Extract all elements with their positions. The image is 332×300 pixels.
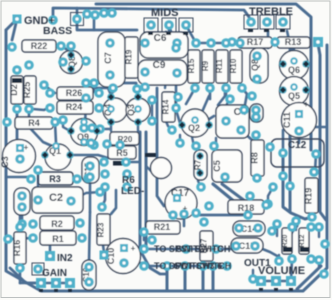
capacitor C16	[82, 260, 96, 290]
wire horizontal y215	[196, 214, 248, 217]
pads right of Q3	[147, 95, 157, 105]
pads R26 R24 right	[94, 88, 104, 98]
pad under R18	[243, 210, 253, 220]
capacitor pill left of C2	[14, 188, 30, 215]
capacitor C2	[32, 187, 83, 213]
wire GND pad to left border	[6, 19, 17, 30]
resistor R19 left	[125, 37, 138, 78]
wire pads top x85	[85, 13, 94, 14]
pads Q5	[279, 86, 287, 94]
pads R13	[261, 200, 271, 210]
resistor R15	[188, 50, 200, 83]
wire IN2 pad up	[49, 246, 52, 256]
svg-text:C11: C11	[282, 112, 292, 128]
resistor R6 bar	[113, 161, 125, 166]
transistor Q7	[151, 158, 172, 179]
wire feeders to Q4 Q3 tops	[84, 83, 138, 95]
svg-text:C5: C5	[212, 160, 222, 172]
pads above Q1 Q3	[108, 83, 118, 93]
capacitor C14	[233, 221, 265, 236]
pads MIDS pot	[144, 18, 158, 32]
svg-text:R25: R25	[22, 82, 32, 99]
pads R17	[227, 37, 237, 47]
svg-text:R5: R5	[116, 148, 128, 158]
pads top GND row	[48, 15, 58, 25]
pads right mid cluster	[285, 181, 295, 191]
wire C9 pad down to Q2	[175, 61, 178, 96]
wire R5 to vertical	[126, 161, 140, 163]
ground pad GND	[13, 15, 22, 24]
resistor R11	[216, 50, 228, 83]
transistor Q6	[280, 51, 309, 80]
wire MIDS elbow to pad 176	[169, 25, 176, 46]
wire R21 pads	[144, 232, 152, 240]
wire right verticals extra	[282, 130, 285, 154]
wire x90 down to C16	[89, 212, 90, 262]
svg-text:+: +	[24, 143, 29, 152]
pads mid left cluster	[58, 115, 68, 125]
wire Q1 right to led column	[70, 155, 108, 158]
resistor R27	[200, 231, 213, 261]
pads R2 R1 right	[75, 218, 85, 228]
wire x152 pads link	[151, 100, 153, 121]
pad square under R23	[100, 251, 109, 260]
pads TREBLE pot	[244, 15, 258, 29]
pad right of C2	[95, 187, 105, 197]
wire C11 to C12	[298, 131, 301, 143]
svg-text:R2: R2	[51, 219, 63, 229]
wire left pads vertical	[93, 83, 95, 92]
resistor R22	[22, 40, 56, 52]
wire bottom center vertical	[212, 266, 215, 291]
resistor R5	[108, 146, 136, 159]
svg-text:R14: R14	[162, 99, 171, 114]
resistor R25	[24, 76, 36, 104]
svg-text:R24: R24	[66, 102, 83, 112]
pads VOLUME pot	[256, 276, 266, 286]
transistor Q8	[60, 51, 83, 74]
capacitor C7	[98, 32, 125, 87]
wire double diagonal B	[222, 184, 249, 204]
pads Q3	[134, 93, 142, 101]
wire C7 down	[110, 75, 113, 92]
pad IN2	[45, 251, 55, 261]
transistor Q2	[181, 109, 209, 137]
wire treble pad2 to C8	[267, 31, 270, 48]
svg-text:VOLUME: VOLUME	[258, 265, 305, 277]
wire Q6 Q5 stubs	[306, 63, 311, 65]
capacitor C12	[271, 139, 324, 167]
capacitor C3	[3, 140, 36, 173]
pads volume top	[272, 219, 282, 229]
wire right side vertical bus 2	[318, 44, 326, 220]
svg-text:R13: R13	[285, 37, 302, 47]
pads C14 C13	[234, 223, 244, 233]
svg-text:+: +	[304, 100, 309, 109]
svg-text:GAIN: GAIN	[42, 268, 67, 279]
svg-text:C7: C7	[103, 52, 113, 64]
svg-text:R6: R6	[122, 175, 135, 186]
svg-text:R15: R15	[187, 58, 196, 73]
transistor Q3	[126, 98, 150, 122]
pads DPDT row	[139, 261, 149, 271]
wire LED column down	[102, 187, 105, 207]
pads small pill right	[251, 105, 261, 115]
wire pad drop x77	[76, 8, 79, 19]
wire MIDS pad3 diagonal	[187, 27, 196, 43]
pads R2 R1 left	[17, 219, 27, 229]
wire C12 left vertical	[289, 100, 292, 150]
wire corner parallel bottom right	[297, 266, 321, 289]
wire border to R1 left	[8, 238, 33, 239]
wire elbow down to volume pad	[293, 219, 299, 231]
wire Q3 bottom down	[137, 122, 139, 131]
resistor R20	[110, 132, 139, 145]
resistor R21	[146, 221, 180, 234]
pads Q6	[279, 60, 287, 68]
capacitor C15 left	[82, 157, 99, 183]
wire vertical x157	[157, 88, 164, 206]
pads C2	[33, 195, 43, 205]
wire R14 bottom to pad	[165, 119, 172, 130]
wire Q1 Q3 cluster	[111, 88, 113, 97]
pads C4	[221, 116, 231, 126]
svg-text:Q6: Q6	[288, 65, 300, 75]
svg-text:R19: R19	[125, 49, 134, 64]
pad top of R8 col	[247, 91, 257, 101]
svg-text:R7: R7	[194, 159, 203, 170]
capacitor C13 pill	[231, 238, 263, 253]
pads C6 C9	[140, 38, 150, 48]
wire R26 to R24 link	[33, 107, 50, 110]
dark bar 2	[300, 247, 309, 252]
svg-text:C12: C12	[288, 140, 307, 151]
svg-text:R8: R8	[250, 152, 260, 164]
wire R16 top to C2 pill	[20, 207, 22, 227]
pads bank top row	[171, 43, 181, 53]
pads Q9	[67, 127, 75, 135]
wire C15 down	[89, 181, 92, 212]
transistor Q9	[71, 119, 98, 146]
wire C12 pad to R19	[315, 154, 316, 172]
pads C8 pill	[252, 51, 262, 61]
wire pads chain right mid	[268, 187, 273, 204]
pad square right of R13	[313, 37, 323, 47]
wire pad to Q9 left	[63, 120, 70, 131]
wire pill bottom stub	[198, 181, 201, 187]
resistor R10	[230, 50, 242, 83]
pads Q8	[67, 51, 75, 59]
pads GAIN pot	[36, 278, 46, 288]
pads C3 C1 area	[16, 144, 24, 152]
pads C5	[196, 152, 204, 160]
svg-text:R20: R20	[282, 234, 289, 247]
pad above R23	[97, 202, 107, 212]
resistor R14	[162, 92, 175, 122]
wire MIDS pad2 stub	[168, 25, 171, 31]
pads volume bottom	[274, 256, 284, 266]
wire pad above C2	[37, 170, 39, 188]
capacitor C17	[165, 187, 197, 219]
wire D2 bottom to C3	[16, 109, 19, 146]
wire bank to Q2	[196, 96, 209, 118]
wire double diagonal A	[213, 184, 247, 212]
wire Q6 top to R17	[293, 48, 295, 52]
wire bank pad to C4	[224, 96, 230, 112]
wire C12 left pad down elbow	[283, 153, 312, 219]
resistor R23	[97, 214, 110, 245]
wire C13 to volume	[255, 246, 279, 257]
pads C7	[105, 38, 115, 48]
resistor R4	[15, 117, 53, 129]
pads C17	[173, 194, 181, 202]
svg-text:Q5: Q5	[288, 91, 300, 101]
svg-text:SWITCH+C: SWITCH+C	[176, 244, 224, 254]
pads R14 area	[173, 92, 183, 102]
wire R16 bottom to gain bus	[19, 268, 22, 283]
pads R22	[7, 42, 17, 52]
pads C16	[84, 262, 94, 272]
svg-text:R3: R3	[49, 174, 61, 184]
resistor R26	[57, 87, 93, 100]
capacitor C5	[194, 150, 207, 180]
svg-text:R1: R1	[52, 234, 64, 244]
svg-text:R17: R17	[247, 37, 264, 47]
svg-text:R4: R4	[28, 118, 40, 128]
pad below pill	[196, 182, 206, 192]
capacitor C10	[106, 239, 141, 274]
svg-text:R9: R9	[201, 60, 210, 71]
wire Q2 bottom	[192, 137, 194, 146]
wire R17 right to Q6	[275, 42, 295, 44]
svg-text:BASS: BASS	[43, 25, 72, 37]
capacitor C9	[138, 60, 187, 85]
wire out pad	[252, 270, 254, 279]
pads left column x86	[81, 78, 91, 88]
svg-text:TREBLE: TREBLE	[249, 6, 293, 18]
svg-text:MIDS: MIDS	[151, 7, 179, 19]
resistor R2	[40, 216, 74, 230]
pad on diagonal	[204, 201, 214, 211]
wire corner parallel bottom left	[10, 268, 41, 283]
wire R22 right to Q8	[71, 46, 72, 51]
svg-text:R19: R19	[304, 188, 314, 205]
pads R4	[2, 117, 12, 127]
wire Q2 connections	[176, 97, 180, 123]
wire GND pad down to R22	[12, 19, 17, 40]
wire C10 to right	[124, 263, 144, 266]
wire bank bottom connections	[186, 88, 195, 104]
pads R3	[26, 174, 36, 184]
resistor R12	[299, 228, 309, 254]
wire mid column verticals	[139, 132, 142, 250]
diode D2	[11, 76, 23, 104]
wire R23 bottom to square pad	[103, 245, 104, 252]
svg-text:IN2: IN2	[57, 253, 73, 264]
wire C4 to right	[241, 130, 252, 140]
svg-text:C3: C3	[0, 156, 10, 168]
resistor R1	[40, 231, 76, 245]
wire treble pad3 to Q6	[287, 31, 292, 50]
pads top x85	[82, 9, 92, 19]
svg-text:C2: C2	[49, 192, 63, 204]
wire volume area	[291, 259, 292, 281]
resistor R16	[14, 232, 26, 264]
wire Q1 bottom down	[110, 122, 112, 131]
wire Q8 left	[63, 55, 71, 62]
capacitor C5 box	[212, 150, 242, 182]
wire C9 left down	[144, 72, 146, 88]
wire mid verticals join	[140, 250, 167, 274]
capacitor C4	[216, 105, 249, 138]
resistor R3	[38, 172, 73, 185]
pads C15 left	[85, 161, 95, 171]
pads OUT area	[248, 274, 258, 284]
pads under Q1 Q3	[89, 140, 99, 150]
svg-text:R23: R23	[97, 222, 106, 237]
wire gain pads bus	[20, 282, 70, 285]
resistor R24	[57, 101, 93, 114]
wire R4 to Q1 top	[55, 122, 56, 143]
wire volume stubs	[291, 227, 293, 233]
volume pot ticks	[259, 288, 263, 291]
svg-text:R12: R12	[299, 234, 306, 247]
capacitor C6	[140, 32, 188, 58]
pads R26 R24 left	[45, 88, 55, 98]
wire board outline top	[96, 4, 311, 150]
pads box mid right	[220, 172, 230, 182]
wire Q8 to C7 diagonal	[61, 46, 71, 52]
pads SPST row	[139, 244, 149, 254]
transistor Q1	[45, 144, 71, 170]
pads C10	[120, 244, 128, 252]
pads R21 row	[139, 227, 149, 237]
gain pot ticks	[39, 289, 43, 292]
wire left border branches	[6, 46, 12, 49]
pads D2 R25	[12, 65, 22, 75]
pad square left of C16	[32, 263, 44, 275]
wire diagonal into bank area	[166, 32, 181, 47]
pads C12	[278, 148, 288, 158]
pads LED area	[99, 157, 109, 167]
capacitor C11	[282, 103, 317, 138]
wire C2 pill to R2	[21, 207, 24, 224]
wire pad to Q1 row	[100, 128, 110, 130]
resistor R8	[251, 140, 264, 176]
resistor R19	[305, 178, 318, 213]
svg-text:R21: R21	[154, 222, 171, 232]
svg-text:R22: R22	[31, 41, 48, 51]
wire long top trace to TREBLE	[53, 8, 249, 20]
svg-text:+: +	[131, 244, 136, 253]
wire dpdt verticals	[166, 266, 169, 291]
wire pad row link	[87, 13, 112, 14]
wire C9 left pad to R14	[165, 78, 166, 88]
svg-text:C6: C6	[154, 33, 167, 44]
svg-text:R11: R11	[215, 58, 224, 73]
pads R19 right	[309, 167, 319, 177]
svg-text:D2: D2	[9, 84, 19, 96]
svg-text:Q2: Q2	[188, 123, 200, 133]
resistor R17	[238, 37, 272, 48]
dark bar 1	[283, 247, 292, 252]
resistor R13	[228, 200, 264, 214]
pads R8 bottom	[251, 130, 261, 140]
resistor R20 bottom	[282, 228, 292, 254]
wire resistor-bank top row bus	[196, 42, 240, 45]
pads Q2	[178, 121, 186, 129]
small pill cap right	[250, 104, 263, 122]
wire SPST row	[144, 248, 250, 251]
wire C11 right branch	[313, 126, 327, 129]
pads Q1	[107, 93, 115, 101]
resistor R13	[277, 37, 310, 48]
wire R14 pad stub	[179, 135, 181, 143]
wire C16 down	[88, 282, 91, 291]
wire C2 to R23 area	[71, 192, 100, 201]
wire horizontal trace y30	[77, 24, 137, 30]
capacitor C8 pill	[250, 48, 268, 83]
svg-text:R26: R26	[66, 88, 83, 98]
jumper bar near Q7	[145, 153, 156, 157]
svg-text:SWITCH3.6: SWITCH3.6	[174, 261, 222, 271]
wire x146 to Q7	[146, 166, 153, 173]
svg-text:C9: C9	[153, 60, 166, 71]
resistor R9	[202, 50, 214, 83]
pads bank bottom row	[190, 83, 200, 93]
svg-text:R10: R10	[229, 58, 238, 73]
pads R16	[15, 222, 25, 232]
transistor Q4	[103, 98, 127, 122]
wire C17 down	[183, 214, 186, 226]
svg-text:R16: R16	[12, 240, 22, 257]
transistor Q5	[280, 77, 309, 106]
wire R25 bottom to C1	[29, 109, 52, 146]
pads C11	[295, 110, 303, 118]
wire DPDT row	[144, 265, 230, 268]
svg-text:Q8: Q8	[250, 59, 260, 71]
wire C4 bottom stub	[215, 138, 217, 146]
svg-text:LED-: LED-	[121, 186, 144, 197]
pad right of C14	[267, 226, 277, 236]
